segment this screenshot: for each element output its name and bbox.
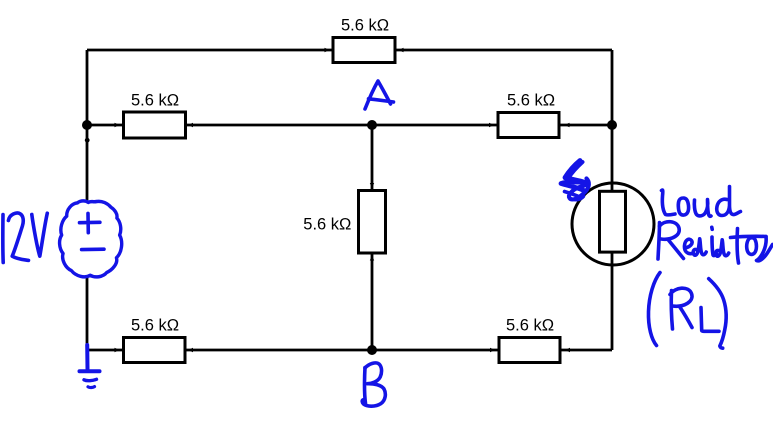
label Load : d — [717, 187, 741, 216]
label Resistor : R — [658, 223, 660, 260]
svg-text:5.6 kΩ: 5.6 kΩ — [506, 317, 554, 335]
wire top horizontal — [87, 49, 612, 52]
node A junction — [367, 120, 377, 130]
svg-text:5.6 kΩ: 5.6 kΩ — [131, 92, 179, 110]
load resistor circle — [572, 183, 654, 265]
svg-text:5.6 kΩ: 5.6 kΩ — [131, 317, 179, 335]
pin mark right of R2 — [188, 123, 193, 127]
ground wire stub — [85, 345, 89, 369]
label Resistor : s — [693, 239, 706, 255]
pin mark right of R1 — [399, 48, 404, 52]
voltage source V1 blob — [60, 201, 122, 277]
node B handwritten label — [365, 368, 366, 404]
node B junction — [367, 345, 377, 355]
pin mark above R4 — [370, 183, 374, 188]
label (RL) : close paren — [709, 279, 726, 349]
label Resistor : r — [757, 237, 773, 261]
pin mark left of R5 — [115, 348, 120, 352]
node junction right — [607, 120, 617, 130]
svg-text:5.6 kΩ: 5.6 kΩ — [303, 216, 351, 234]
resistor R2 row2 left — [124, 112, 186, 138]
resistor R6 bottom right — [499, 338, 560, 363]
scribble mark on load resistor — [561, 161, 589, 200]
pin mark left of R3 — [489, 123, 494, 127]
svg-text:5.6 kΩ: 5.6 kΩ — [341, 17, 389, 35]
label 12V : digit 2 — [8, 213, 28, 260]
label (RL) : L subscript — [701, 308, 719, 332]
wire bottom horizontal — [87, 349, 612, 352]
label (RL) : R — [671, 291, 672, 330]
label Load : o — [678, 198, 688, 215]
label Resistor : i — [712, 237, 716, 256]
wire middle vertical — [371, 125, 374, 350]
svg-text:5.6 kΩ: 5.6 kΩ — [507, 92, 555, 110]
label Resistor : t — [737, 229, 738, 264]
ground bar 3 — [88, 385, 95, 389]
label 12V : letter V — [32, 213, 48, 256]
pin mark right of R3 — [565, 123, 570, 127]
label Resistor : o — [747, 238, 757, 255]
pin mark below R4 — [370, 256, 374, 261]
label 12V : digit 1 — [1, 215, 5, 263]
resistor R3 row2 right — [498, 113, 559, 138]
label Load : a — [694, 200, 711, 217]
load resistor RL rect — [600, 191, 626, 252]
resistor R5 bottom left — [124, 338, 186, 363]
pin mark left of R6 — [490, 348, 495, 352]
node A handwritten label — [365, 81, 391, 109]
node junction left — [82, 120, 92, 130]
label Resistor : e — [684, 239, 692, 253]
V1 plus sign — [80, 221, 100, 225]
wire row2 horizontal — [87, 124, 612, 127]
resistor R1 top — [333, 38, 395, 63]
label Resistor : s — [716, 240, 729, 256]
label Load : L — [662, 190, 676, 215]
pin mark right of R6 — [565, 348, 570, 352]
ground bar 2 — [84, 379, 97, 380]
V1 minus sign — [82, 247, 104, 251]
wire right vertical — [611, 50, 614, 350]
pin mark left of R1 — [325, 48, 330, 52]
pin mark left of R2 — [115, 123, 120, 127]
pin mark right of R5 — [188, 348, 193, 352]
label (RL) : open paren — [648, 273, 660, 346]
pin blob on left wire (source top pin) — [85, 138, 90, 143]
ground bar 1 — [80, 369, 100, 373]
wire left vertical — [86, 50, 89, 352]
resistor R4 middle — [359, 191, 386, 254]
